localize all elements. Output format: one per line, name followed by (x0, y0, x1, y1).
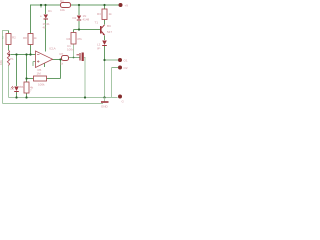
junction node rail x105 (103, 4, 105, 6)
resistor R2 left column (2, 34, 16, 45)
svg-text:GND: GND (101, 105, 109, 109)
connector pin GND right (118, 95, 125, 104)
svg-text:P1: P1 (10, 57, 14, 61)
wire op-amp V+ pin column with D1 (45, 5, 47, 52)
connector pin supply top right (119, 3, 129, 8)
svg-text:48: 48 (43, 26, 47, 30)
wire left border (3, 31, 9, 104)
junction node rail x79 (78, 4, 80, 6)
svg-text:T1: T1 (95, 21, 99, 25)
wire top rail left segment (31, 4, 61, 6)
wire minus input horizontal (13, 54, 36, 56)
resistor R1 on top rail (60, 0, 71, 12)
svg-text:R2: R2 (12, 36, 16, 40)
svg-text:2: 2 (2, 36, 4, 40)
wire bottom rail y97 (9, 97, 118, 99)
wire LED2 down to out node (104, 46, 106, 60)
svg-text:1k: 1k (60, 62, 64, 66)
svg-text:1M: 1M (37, 72, 42, 76)
ground symbol GND (101, 98, 109, 109)
svg-text:47k: 47k (77, 37, 82, 41)
wire feedback vertical x60 (60, 60, 62, 79)
wire R4 bottom to cap node (73, 44, 75, 58)
potentiometer P1 (0, 50, 14, 66)
svg-text:O1: O1 (124, 59, 128, 63)
wire left divider column from rail (30, 5, 32, 34)
junction node minus wire x16 (15, 53, 17, 55)
wire feedback horizontal (27, 78, 61, 80)
resistor R6 bottom-left (20, 82, 34, 93)
wire op-amp output (52, 59, 62, 61)
junction node minus wire x30 (29, 53, 31, 55)
wire out node to pin O1 (105, 59, 119, 61)
svg-text:IC1A: IC1A (49, 47, 56, 51)
connector pin OUT2 (118, 66, 128, 71)
svg-text:a: a (40, 15, 42, 18)
svg-text:R8: R8 (23, 36, 27, 40)
wire out node down to ground rail (104, 60, 106, 98)
svg-text:G: G (122, 100, 125, 104)
wire LED1 column (16, 55, 18, 98)
wire top rail right segment (71, 4, 120, 6)
resistor R3 collector (97, 9, 112, 20)
resistor R4 (67, 33, 83, 45)
svg-text:BC: BC (107, 24, 112, 28)
diode D2 (73, 14, 90, 22)
wire emitter to LED2 (104, 36, 106, 41)
resistor R5 feedback (34, 68, 47, 87)
resistor R7 output series (60, 52, 69, 66)
svg-text:R3: R3 (97, 12, 101, 16)
wire R6 column below feedback node (26, 79, 28, 98)
wire pot column stubs (8, 31, 10, 51)
svg-text:O2: O2 (124, 66, 128, 70)
junction node rail x41 (40, 4, 42, 6)
junction node out y60 x105 (103, 59, 105, 61)
svg-text:100k: 100k (38, 83, 45, 87)
wire op-amp V- stub (44, 63, 46, 68)
wire cap C1 to ground rail x85 (84, 58, 85, 98)
transistor T1 NPN (95, 21, 113, 36)
diode D1 (40, 9, 52, 30)
svg-text:D1: D1 (48, 9, 52, 13)
svg-text:rt: rt (20, 85, 22, 89)
junction node rail x16 (15, 96, 17, 98)
wire plus input stub (33, 62, 36, 67)
wire stub at rail x41 (40, 5, 42, 8)
LED LED1 (11, 85, 22, 92)
svg-text:1k: 1k (34, 36, 38, 40)
svg-text:10k: 10k (0, 60, 3, 65)
junction node feedback x26 (25, 77, 27, 79)
svg-text:L1: L1 (11, 87, 15, 91)
junction node R4 bottom x73 (73, 57, 75, 59)
junction node base wire x79 (78, 28, 80, 30)
wire transistor base horizontal (74, 29, 101, 31)
junction node rail x85 (84, 96, 86, 98)
svg-text:D2: D2 (73, 16, 77, 20)
LED LED2 (97, 41, 107, 51)
svg-text:4148: 4148 (83, 18, 90, 22)
wire R7 to cap C1 (69, 57, 81, 59)
connector pin OUT1 (118, 58, 128, 63)
junction node rail x105 (103, 96, 105, 98)
capacitor C1 polarized (67, 44, 84, 61)
wire D2 column from rail to base wire (78, 5, 80, 30)
wire bottom rail y103 (3, 103, 104, 105)
svg-text:1k: 1k (109, 12, 113, 16)
wire R3 bottom to collector (104, 19, 106, 25)
svg-text:+9: +9 (125, 4, 129, 8)
svg-text:gn: gn (97, 46, 101, 50)
wire R4 top stub (73, 30, 75, 33)
svg-text:R1: R1 (60, 0, 64, 3)
svg-text:10k: 10k (60, 8, 65, 12)
svg-text:100n: 100n (67, 48, 74, 52)
svg-text:R4: R4 (67, 37, 71, 41)
op-amp IC1A (36, 47, 56, 68)
junction node output x60 (59, 58, 61, 60)
junction node rail x46 (44, 4, 46, 6)
wire R8 bottom to minus node (30, 45, 32, 55)
wire x26 vertical minus node down (26, 55, 28, 79)
wire pin O2 to x111 vertical (112, 67, 119, 69)
svg-text:547: 547 (107, 30, 112, 34)
svg-text:R7: R7 (60, 52, 64, 56)
wire x111 vertical to ground rail (111, 68, 113, 98)
resistor R8 divider column (23, 34, 37, 45)
wire pot bottom to ground rail (8, 66, 10, 98)
wire R3 top stub (104, 5, 106, 9)
junction node rail x26 (25, 96, 27, 98)
junction node minus wire x26 (25, 53, 27, 55)
